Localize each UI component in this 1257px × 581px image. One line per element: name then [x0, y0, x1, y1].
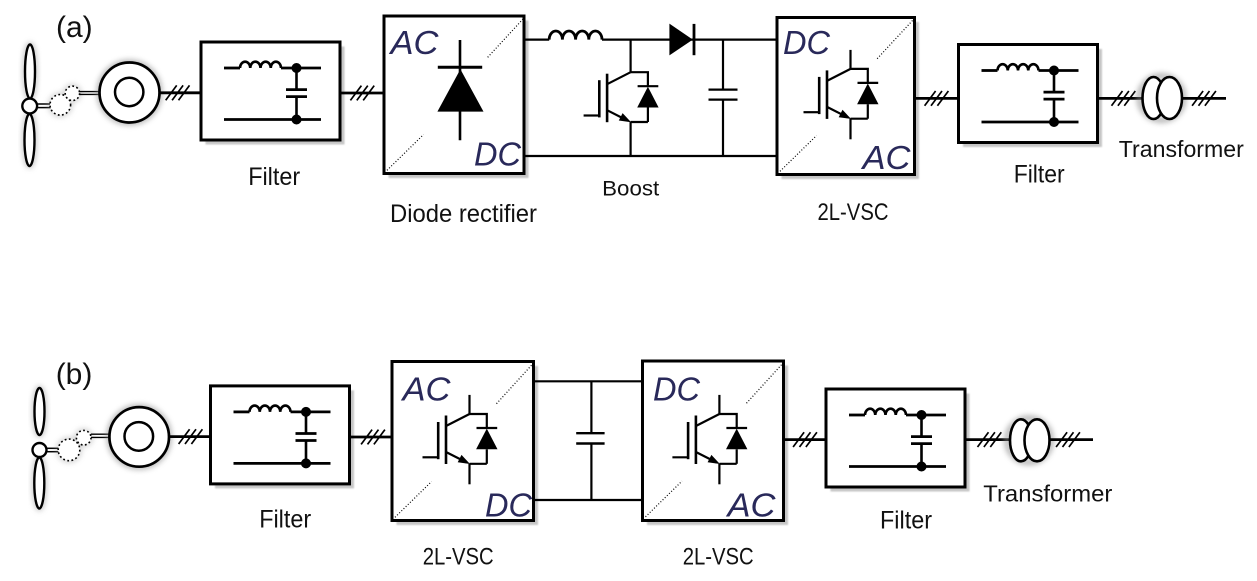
- 3-phase slashes: [1056, 432, 1080, 447]
- VSC B1 IGBT collector lead: [468, 395, 470, 414]
- diode rectifier box: [384, 16, 529, 178]
- svg-text:DC: DC: [474, 136, 522, 173]
- generator B: [109, 407, 169, 467]
- 3-phase slashes: [1192, 91, 1216, 106]
- svg-text:Transformer: Transformer: [1119, 136, 1244, 162]
- VSC A IGBT collector lead: [849, 50, 851, 69]
- dc-link bottom rail: [534, 499, 644, 501]
- dc-link capacitor C2: [576, 381, 604, 500]
- svg-text:(b): (b): [56, 358, 93, 391]
- wire generator B to filter F3: [169, 435, 211, 438]
- gearbox B: [58, 430, 91, 460]
- svg-text:Filter: Filter: [880, 507, 932, 535]
- VSC B2 IGBT emitter lead: [718, 464, 720, 485]
- boost IGBT Q1: [584, 72, 659, 122]
- 2L-VSC box B2: [643, 361, 789, 525]
- svg-text:Filter: Filter: [1014, 161, 1065, 189]
- filter box F4: [826, 389, 970, 492]
- boost diode D2: [669, 24, 694, 56]
- svg-text:AC: AC: [388, 24, 439, 61]
- wire transformer A to grid: [1183, 97, 1227, 100]
- wire filter F3 to VSC B1: [350, 436, 393, 439]
- boost bottom wire: [524, 155, 778, 157]
- svg-text:2L-VSC: 2L-VSC: [423, 543, 494, 570]
- 3-phase slashes: [978, 432, 1002, 447]
- gearbox A: [50, 86, 80, 115]
- svg-text:Transformer: Transformer: [983, 480, 1112, 506]
- VSC B1 IGBT emitter lead: [468, 464, 470, 485]
- svg-text:(a): (a): [56, 11, 93, 44]
- VSC A IGBT Q2: [804, 69, 879, 119]
- 3-phase slashes: [793, 432, 817, 447]
- wire VSC B2 to filter F4: [784, 438, 827, 441]
- wind turbine rotor A: [22, 45, 37, 167]
- 3-phase slashes: [179, 429, 203, 444]
- low-speed shaft B: [47, 448, 59, 451]
- wire generator A to filter F1: [160, 91, 202, 94]
- 3-phase slashes: [925, 91, 949, 106]
- svg-text:AC: AC: [860, 139, 911, 176]
- boost inductor L1: [549, 31, 602, 40]
- filter box F3: [211, 386, 355, 489]
- wire filter F2 to transformer A: [1097, 97, 1144, 100]
- rectifier diode D1: [437, 40, 483, 140]
- boost output capacitor C1: [709, 40, 738, 156]
- svg-text:AC: AC: [400, 371, 451, 408]
- wind turbine rotor B: [33, 388, 47, 509]
- boost IGBT Q1 collector lead: [629, 40, 631, 73]
- filter box F1: [201, 42, 345, 145]
- 3-phase slashes: [1112, 91, 1136, 106]
- 2L-VSC box B1: [392, 362, 538, 526]
- 2L-VSC box A: [777, 18, 919, 180]
- wire filter F4 to transformer B: [965, 438, 1010, 441]
- 3-phase slashes: [166, 85, 190, 100]
- filter box F2: [959, 45, 1103, 148]
- wire filter F1 to rectifier: [340, 92, 385, 95]
- dc-link top rail: [534, 380, 644, 382]
- svg-text:DC: DC: [783, 24, 831, 61]
- boost IGBT Q1 emitter lead: [629, 122, 631, 156]
- svg-text:Boost: Boost: [602, 177, 659, 200]
- transformer A: [1140, 76, 1184, 120]
- VSC B2 IGBT collector lead: [718, 395, 720, 414]
- transformer B: [1007, 418, 1051, 462]
- VSC A IGBT emitter lead: [849, 119, 851, 140]
- VSC B1 IGBT Q3: [423, 414, 498, 464]
- svg-text:DC: DC: [485, 487, 533, 524]
- wire transformer B to grid: [1050, 438, 1094, 441]
- svg-text:Filter: Filter: [248, 163, 300, 191]
- wire VSC A to filter F2: [915, 97, 960, 100]
- boost top wire: [524, 38, 778, 40]
- generator A: [100, 63, 160, 123]
- low-speed shaft A: [37, 104, 52, 108]
- svg-text:2L-VSC: 2L-VSC: [818, 199, 889, 226]
- svg-text:Filter: Filter: [259, 506, 311, 534]
- high-speed shaft B: [91, 434, 125, 437]
- svg-text:2L-VSC: 2L-VSC: [683, 543, 754, 570]
- 3-phase slashes: [350, 86, 374, 101]
- VSC B2 IGBT Q4: [672, 414, 747, 464]
- 3-phase slashes: [361, 430, 385, 445]
- high-speed shaft A: [79, 92, 115, 95]
- svg-text:Diode rectifier: Diode rectifier: [390, 200, 537, 228]
- svg-text:DC: DC: [653, 370, 701, 407]
- svg-text:AC: AC: [725, 486, 776, 523]
